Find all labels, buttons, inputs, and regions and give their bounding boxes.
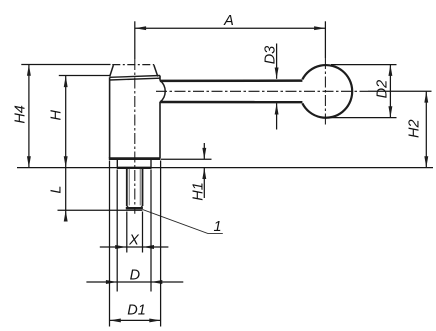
svg-text:H: H [49, 110, 65, 121]
dim D extension left [116, 170, 118, 292]
washer left edge [116, 159, 118, 167]
leader line 1 [143, 210, 223, 234]
svg-text:X: X [128, 233, 140, 249]
dim D1 extension right [160, 161, 162, 327]
dim H2 arrow bottom [424, 156, 428, 167]
dim X extension left [126, 212, 128, 253]
dim H line [65, 76, 67, 168]
stud outer right [142, 169, 144, 206]
body bottom edge [109, 157, 161, 160]
dim A extension right [324, 21, 326, 58]
handle top edge [160, 79, 303, 82]
svg-text:D3: D3 [262, 46, 278, 65]
dim H4 arrow bottom [27, 156, 31, 167]
thread minor right [139, 169, 141, 206]
stud chamfer left [127, 206, 129, 208]
cap left chamfer [110, 65, 114, 76]
dim A arrow right [314, 26, 325, 30]
dim D1 line [110, 319, 161, 321]
dim H4 extension [21, 64, 110, 66]
dim D line [86, 281, 183, 283]
svg-text:D: D [130, 268, 140, 284]
dim L extension bottom [58, 209, 143, 211]
stud chamfer right [141, 206, 143, 208]
dim D3 line upper [276, 44, 278, 79]
body centerline [134, 59, 136, 214]
dim D2 arrow bottom [388, 106, 392, 117]
dim D3 line lower [276, 103, 278, 129]
dim X arrow right [143, 245, 154, 249]
svg-text:H1: H1 [191, 182, 207, 201]
dim H arrow bottom [64, 156, 68, 167]
body top face upper edge [110, 76, 160, 78]
dim D2 extension top [331, 64, 397, 66]
dim L arrow [64, 210, 68, 221]
ball centerline [324, 58, 326, 125]
svg-text:L: L [49, 186, 65, 194]
dim H1 extension [161, 158, 212, 160]
svg-text:H2: H2 [407, 119, 423, 138]
svg-text:D2: D2 [375, 80, 391, 99]
body top face lower edge [110, 78, 160, 80]
svg-text:D1: D1 [127, 303, 146, 319]
body right edge lower [159, 102, 161, 158]
dim H extension [59, 75, 111, 77]
dim H1 line lower [203, 168, 205, 198]
svg-text:H4: H4 [13, 105, 29, 124]
handle bottom edge [160, 101, 303, 104]
svg-text:1: 1 [213, 219, 221, 235]
ball knob [302, 65, 352, 118]
dim D2 line [389, 65, 391, 118]
dim A extension left [134, 21, 136, 59]
dim D1 arrow right [149, 318, 160, 322]
dim H2 line [425, 91, 427, 167]
dim D3 arrow lower [275, 103, 279, 114]
handle centerline [156, 90, 368, 92]
dim D1 extension left [109, 161, 111, 327]
dim H2 arrow top [424, 91, 428, 102]
dim H1 line upper [203, 143, 205, 159]
body right edge upper [159, 76, 161, 81]
dim X line [100, 246, 169, 248]
dim A line [135, 27, 326, 29]
dim H arrow top [64, 76, 68, 87]
dim H4 arrow top [27, 65, 31, 76]
dim H2 extension [368, 90, 432, 92]
dim H1 arrow upper [202, 148, 206, 159]
cap top phantom line [112, 64, 154, 66]
handle-body junction arc [160, 80, 165, 102]
dim X extension right [142, 212, 144, 253]
dim L line [65, 168, 67, 221]
body left edge [109, 77, 111, 158]
dim H4 line [28, 65, 30, 168]
dim D3 arrow upper [275, 68, 279, 79]
washer bottom edge [117, 167, 152, 169]
stud bottom edge [126, 207, 143, 209]
dim D2 extension bottom [328, 117, 397, 119]
washer right edge [150, 159, 152, 167]
dim D1 arrow left [110, 318, 121, 322]
dim X arrow left [115, 245, 126, 249]
svg-text:A: A [223, 13, 234, 29]
dim D extension right [150, 170, 152, 292]
baseline mounting plane [17, 167, 433, 169]
dim D arrow right [151, 280, 162, 284]
thread minor left [128, 169, 130, 206]
dim A arrow left [135, 26, 146, 30]
stud outer left [126, 169, 128, 206]
dim H1 arrow lower [202, 168, 206, 179]
dim D2 arrow top [388, 65, 392, 76]
dim D arrow left [106, 280, 117, 284]
cap right chamfer [154, 65, 158, 76]
